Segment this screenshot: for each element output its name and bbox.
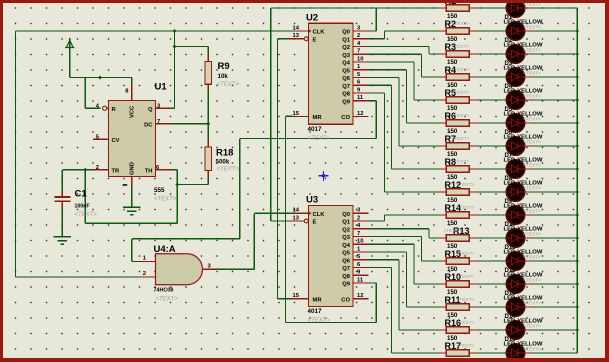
wire: LED cathode row y=123 bbox=[532, 122, 578, 124]
svg-text:Q4: Q4 bbox=[342, 61, 351, 67]
wire: LED cathode row y=31 bbox=[532, 30, 578, 32]
svg-text:<TEXT>: <TEXT> bbox=[523, 25, 541, 31]
wire: LED cathode row y=54 bbox=[532, 53, 578, 55]
power symbol VCC arrow bbox=[65, 38, 75, 78]
wire: row1 net to U3 E pin (x=270.75) bbox=[271, 8, 293, 221]
svg-text:Q9: Q9 bbox=[342, 282, 351, 288]
svg-text:Q9: Q9 bbox=[342, 99, 351, 105]
svg-text:MR: MR bbox=[313, 297, 323, 303]
wire: LED cathode bus (x=577.25) bbox=[576, 8, 578, 353]
LED D16 bbox=[506, 344, 531, 362]
resistor R2 bbox=[439, 28, 478, 35]
svg-text:Q4: Q4 bbox=[342, 243, 351, 249]
resistor R1 bbox=[439, 5, 478, 12]
wire: U2 MR to U3 Q9 path bbox=[286, 116, 377, 322]
wire: U2 Q3 to row at y=77 bbox=[369, 54, 439, 77]
wire: U2 Q5 to row at y=123 bbox=[369, 70, 439, 123]
wire: U3 Q2 to row at y=238 bbox=[369, 229, 439, 238]
wire: resistor to LED row y=8 bbox=[478, 7, 506, 9]
svg-text:TR: TR bbox=[112, 169, 121, 175]
svg-text:<TEXT>: <TEXT> bbox=[457, 274, 475, 280]
svg-text:Q8: Q8 bbox=[342, 92, 351, 98]
LED D15 bbox=[506, 321, 531, 339]
svg-text:11: 11 bbox=[357, 277, 364, 283]
resistor R6 bbox=[439, 120, 478, 127]
wire: U2 Q2 to row at y=54 bbox=[369, 47, 439, 55]
svg-text:<TEXT>: <TEXT> bbox=[523, 278, 541, 284]
wire: resistor to LED row y=123 bbox=[478, 122, 506, 124]
wire: U3 Q4 to row at y=284 bbox=[369, 244, 439, 284]
U1 pin names and numbers bbox=[96, 89, 161, 186]
svg-text:<TEXT>: <TEXT> bbox=[457, 251, 475, 257]
svg-text:U3: U3 bbox=[306, 195, 318, 206]
resistor R7 bbox=[439, 143, 478, 150]
svg-text:<TEXT>: <TEXT> bbox=[452, 90, 470, 96]
U1 pin stubs bbox=[93, 85, 171, 185]
svg-text:14: 14 bbox=[293, 25, 300, 31]
svg-text:VCC: VCC bbox=[130, 105, 136, 118]
wire: VCC power rail from arrow to 555 VCC pin (y=77.5) bbox=[70, 78, 132, 109]
U4:A pin numbers bbox=[143, 256, 212, 278]
wire: R9 top to Q net (y=46.5) bbox=[175, 47, 209, 55]
wire: LED cathode row y=8 bbox=[532, 7, 578, 9]
wire: 555 DC pin to R9/R18 node bbox=[171, 123, 208, 125]
wire: U3 Q1 to row10 bbox=[369, 215, 439, 221]
svg-text:<TEXT>: <TEXT> bbox=[75, 212, 98, 218]
svg-text:4017: 4017 bbox=[308, 126, 323, 133]
svg-text:Q1: Q1 bbox=[342, 37, 351, 43]
svg-text:7: 7 bbox=[357, 231, 360, 237]
resistor R13 bbox=[439, 235, 478, 242]
svg-text:Q1: Q1 bbox=[342, 220, 351, 226]
U3 pin numbers bbox=[293, 208, 364, 300]
LED D13 bbox=[506, 275, 531, 293]
wire: U3 Q6 to row at y=330 bbox=[369, 260, 439, 330]
svg-text:<TEXT>: <TEXT> bbox=[523, 163, 541, 169]
blue origin marker bbox=[319, 171, 329, 181]
wire: LED cathode row y=100 bbox=[532, 99, 578, 101]
wire: resistor to LED row y=215 bbox=[478, 214, 506, 216]
wire: resistor to LED row y=77 bbox=[478, 76, 506, 78]
LED D10 bbox=[506, 206, 531, 224]
svg-text:CO: CO bbox=[341, 115, 350, 121]
svg-text:<TEXT>: <TEXT> bbox=[523, 117, 541, 123]
wire: U2 Q4 to row at y=100 bbox=[369, 62, 439, 100]
svg-text:<TEXT>: <TEXT> bbox=[523, 48, 541, 54]
LED D2 bbox=[506, 22, 531, 40]
wire: U2 E pin to U3 MR pin (x=277.5) bbox=[278, 39, 293, 299]
LED D4 bbox=[506, 68, 531, 86]
wire: resistor to LED row y=54 bbox=[478, 53, 506, 55]
ground under C1 bbox=[54, 237, 72, 245]
LED D5 bbox=[506, 91, 531, 109]
junction TH/R18 node bbox=[175, 182, 179, 186]
svg-text:<TEXT>: <TEXT> bbox=[452, 21, 470, 27]
wire: 555 GND pin to ground bbox=[131, 185, 133, 207]
svg-text:<TEXT>: <TEXT> bbox=[457, 297, 475, 303]
svg-text:U2: U2 bbox=[306, 12, 318, 23]
U2 left pin stubs (CLK,E,MR) bbox=[288, 29, 312, 117]
wire: U2 Q8 to row at y=192 bbox=[369, 93, 439, 192]
svg-text:Q6: Q6 bbox=[342, 76, 351, 82]
U2 right pin stubs (Q0-Q9,CO) bbox=[353, 31, 369, 117]
svg-text:<TEXT>: <TEXT> bbox=[523, 301, 541, 307]
svg-text:<TEXT>: <TEXT> bbox=[523, 232, 541, 238]
svg-text:C1: C1 bbox=[75, 189, 88, 200]
LED D11 bbox=[506, 229, 531, 247]
LED D3 bbox=[506, 45, 531, 63]
IC U1 NE555 body bbox=[109, 101, 156, 177]
svg-text:14: 14 bbox=[293, 208, 300, 214]
ground under U1 GND pin bbox=[123, 207, 141, 215]
AND gate U4:A body bbox=[140, 254, 217, 285]
wire: U3 Q5 to row at y=307 bbox=[369, 252, 439, 307]
wire: LED cathode row y=215 bbox=[532, 214, 578, 216]
wire: R18 bottom to TH/TR node bbox=[177, 179, 208, 185]
LED D8 bbox=[506, 160, 531, 178]
wire: resistor to LED row y=330 bbox=[478, 329, 506, 331]
svg-text:15: 15 bbox=[293, 111, 300, 117]
capacitor C1 bbox=[54, 191, 70, 210]
svg-text:R18: R18 bbox=[216, 148, 233, 159]
wire: LED cathode row y=77 bbox=[532, 76, 578, 78]
svg-text:<TEXT>: <TEXT> bbox=[523, 186, 541, 192]
svg-text:<TEXT>: <TEXT> bbox=[217, 82, 240, 88]
resistor R3 bbox=[439, 51, 478, 58]
wire: 555 Q output to CLK rail (net CLK, y=31) bbox=[16, 31, 293, 108]
resistor R16 bbox=[439, 327, 478, 334]
wire: U2 Q7 to row at y=169 bbox=[369, 85, 439, 169]
LED D12 bbox=[506, 252, 531, 270]
wire: 555 TH pin loop to TR pin (TH-TR tie) bbox=[85, 170, 177, 224]
wire: LED cathode row y=284 bbox=[532, 283, 578, 285]
svg-text:Q7: Q7 bbox=[342, 84, 350, 90]
wire: LED cathode row y=353 bbox=[532, 352, 578, 354]
svg-text:<TEXT>: <TEXT> bbox=[523, 140, 541, 146]
wire: resistor to LED row y=169 bbox=[478, 168, 506, 170]
junction DC node bbox=[206, 122, 210, 126]
svg-text:<TEXT>: <TEXT> bbox=[457, 343, 475, 349]
wire: U2 Q1 to row2 bbox=[369, 31, 439, 39]
resistor R12 bbox=[439, 189, 478, 196]
resistor R9 body bbox=[205, 47, 211, 89]
wire: U4:A output to U3 CLK pin bbox=[217, 213, 293, 269]
svg-text:MR: MR bbox=[313, 115, 323, 121]
LED D1 bbox=[506, 0, 531, 17]
svg-text:R9: R9 bbox=[218, 61, 230, 72]
wire: resistor to LED row y=353 bbox=[478, 352, 506, 354]
resistor R17 bbox=[439, 350, 478, 357]
svg-text:4017: 4017 bbox=[308, 308, 323, 315]
svg-text:<TEXT>: <TEXT> bbox=[452, 113, 470, 119]
wire: LED cathode row y=330 bbox=[532, 329, 578, 331]
svg-text:Q0: Q0 bbox=[342, 30, 350, 36]
svg-text:<TEXT>: <TEXT> bbox=[452, 44, 470, 50]
svg-text:CO: CO bbox=[341, 297, 350, 303]
resistor R8 bbox=[439, 166, 478, 173]
svg-text:Q8: Q8 bbox=[342, 274, 351, 280]
svg-text:U1: U1 bbox=[155, 82, 168, 93]
svg-text:Q3: Q3 bbox=[342, 53, 351, 59]
LED D14 bbox=[506, 298, 531, 316]
svg-text:Q6: Q6 bbox=[342, 258, 351, 264]
svg-text:CLK: CLK bbox=[313, 212, 326, 218]
wire: resistor to LED row y=284 bbox=[478, 283, 506, 285]
svg-text:15: 15 bbox=[293, 293, 300, 299]
svg-text:GND: GND bbox=[130, 162, 136, 175]
wire: resistor to LED row y=238 bbox=[478, 237, 506, 239]
U2 pin names bbox=[313, 30, 351, 122]
svg-text:<TEXT>: <TEXT> bbox=[523, 255, 541, 261]
svg-text:E: E bbox=[313, 37, 317, 43]
svg-text:12: 12 bbox=[357, 111, 363, 117]
wire: resistor to LED row y=261 bbox=[478, 260, 506, 262]
junction on VCC rail bbox=[98, 75, 102, 79]
svg-text:TH: TH bbox=[145, 169, 153, 175]
svg-text:<TEXT>: <TEXT> bbox=[444, 228, 462, 234]
svg-text:13: 13 bbox=[293, 33, 300, 39]
svg-text:Q2: Q2 bbox=[342, 227, 350, 233]
wire: 555 TR pin to C1 top bbox=[62, 170, 93, 191]
wire: U2 Q9 to U4:A input 1 path bbox=[132, 101, 377, 262]
svg-text:<TEXT>: <TEXT> bbox=[523, 209, 541, 215]
svg-text:2: 2 bbox=[357, 33, 360, 39]
svg-text:2: 2 bbox=[143, 271, 146, 277]
svg-text:<TEXT>: <TEXT> bbox=[457, 320, 475, 326]
LED D7 bbox=[506, 137, 531, 155]
svg-text:<TEXT>: <TEXT> bbox=[457, 205, 475, 211]
svg-text:555: 555 bbox=[154, 187, 165, 194]
resistor R4 bbox=[439, 74, 478, 81]
LED D6 bbox=[506, 114, 531, 132]
svg-text:7: 7 bbox=[157, 119, 160, 125]
wire: R9 bottom to R18 top through DC node bbox=[207, 89, 209, 148]
svg-text:<TEXT>: <TEXT> bbox=[308, 136, 331, 142]
wire: U3 Q3 to row at y=261 bbox=[369, 237, 439, 262]
wire: U3 Q7 to row at y=353 bbox=[369, 268, 439, 354]
wire: resistor to LED row y=146 bbox=[478, 145, 506, 147]
IC U2 4017 body bbox=[309, 23, 354, 124]
svg-text:10k: 10k bbox=[218, 73, 229, 80]
svg-text:<TEXT>: <TEXT> bbox=[523, 324, 541, 330]
wire: resistor to LED row y=31 bbox=[478, 30, 506, 32]
resistor R18 body bbox=[205, 140, 211, 179]
wire: U2 Q0 to row1 bbox=[271, 8, 439, 31]
svg-text:2: 2 bbox=[357, 215, 360, 221]
wire: C1 bottom to ground bbox=[61, 210, 63, 237]
junction TR branch bbox=[83, 168, 87, 172]
svg-text:<TEXT>: <TEXT> bbox=[217, 167, 240, 173]
U3 left pin stubs (CLK,E,MR) bbox=[288, 211, 312, 299]
wire: LED cathode row y=192 bbox=[532, 191, 578, 193]
svg-text:<TEXT>: <TEXT> bbox=[308, 318, 331, 324]
svg-text:13: 13 bbox=[293, 215, 300, 221]
svg-text:<TEXT>: <TEXT> bbox=[154, 197, 177, 203]
junction Q vertical / R9 branch bbox=[173, 44, 177, 48]
wire: resistor to LED row y=100 bbox=[478, 99, 506, 101]
svg-text:7: 7 bbox=[357, 49, 360, 55]
svg-text:CV: CV bbox=[112, 138, 120, 144]
wire: resistor to LED row y=192 bbox=[478, 191, 506, 193]
wire: LED cathode row y=146 bbox=[532, 145, 578, 147]
svg-text:11: 11 bbox=[357, 95, 364, 101]
svg-text:<TEXT>: <TEXT> bbox=[523, 347, 541, 353]
svg-text:Q7: Q7 bbox=[342, 266, 350, 272]
svg-text:10: 10 bbox=[357, 56, 363, 62]
wire: LED cathode row y=169 bbox=[532, 168, 578, 170]
svg-text:Q: Q bbox=[148, 107, 153, 113]
wire: LED cathode row y=261 bbox=[532, 260, 578, 262]
svg-text:12: 12 bbox=[357, 293, 363, 299]
svg-text:10: 10 bbox=[357, 239, 363, 245]
svg-text:Q3: Q3 bbox=[342, 235, 351, 241]
U3 right pin stubs (Q0-Q9,CO) bbox=[353, 213, 369, 299]
svg-text:Q5: Q5 bbox=[342, 68, 351, 74]
svg-text:CLK: CLK bbox=[313, 30, 326, 36]
U3 pin names bbox=[313, 212, 351, 304]
IC U3 4017 body bbox=[309, 206, 354, 307]
junction CLK rail / Q vertical bbox=[173, 29, 177, 33]
resistor R11 bbox=[439, 304, 478, 311]
svg-text:<TEXT>: <TEXT> bbox=[523, 94, 541, 100]
resistor R5 bbox=[439, 97, 478, 104]
svg-text:U4:A: U4:A bbox=[154, 244, 176, 255]
svg-text:2: 2 bbox=[96, 165, 99, 171]
svg-text:<TEXT>: <TEXT> bbox=[457, 182, 475, 188]
wire: LED cathode row y=238 bbox=[532, 237, 578, 239]
resistor R14 bbox=[439, 212, 478, 219]
wire: LED cathode row y=307 bbox=[532, 306, 578, 308]
svg-text:DC: DC bbox=[144, 123, 153, 129]
svg-text:Q0: Q0 bbox=[342, 212, 350, 218]
svg-text:<TEXT>: <TEXT> bbox=[452, 136, 470, 142]
svg-text:74HC08: 74HC08 bbox=[154, 288, 174, 294]
wire: left rail down to U4:A input 2 bbox=[16, 31, 141, 277]
wire: U2 Q6 to row at y=146 bbox=[369, 78, 439, 147]
resistor R15 bbox=[439, 258, 478, 265]
svg-text:<TEXT>: <TEXT> bbox=[523, 71, 541, 77]
resistor R10 bbox=[439, 281, 478, 288]
svg-text:<TEXT>: <TEXT> bbox=[452, 67, 470, 73]
svg-text:<TEXT>: <TEXT> bbox=[156, 297, 179, 303]
svg-text:<TEXT>: <TEXT> bbox=[452, 159, 470, 165]
U2 pin numbers bbox=[293, 25, 364, 117]
svg-text:500k: 500k bbox=[216, 158, 230, 165]
svg-text:E: E bbox=[313, 220, 317, 226]
svg-text:Q5: Q5 bbox=[342, 251, 351, 257]
LED D9 bbox=[506, 183, 531, 201]
svg-text:Q2: Q2 bbox=[342, 45, 350, 51]
svg-text:100nF: 100nF bbox=[75, 204, 90, 210]
wire: resistor to LED row y=307 bbox=[478, 306, 506, 308]
